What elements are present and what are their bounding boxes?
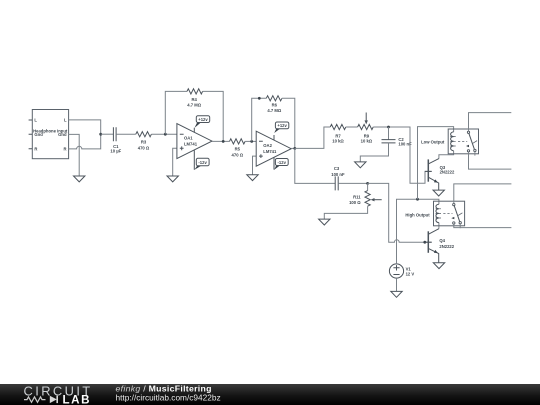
ground Q4 emitter: [433, 263, 444, 269]
svg-text:Headphone Input: Headphone Input: [33, 128, 68, 133]
svg-text:100 nF: 100 nF: [398, 142, 412, 147]
svg-text:L: L: [34, 118, 37, 123]
svg-text:100 nF: 100 nF: [331, 172, 345, 177]
svg-text:V1: V1: [406, 266, 412, 271]
svg-text:LAB: LAB: [63, 393, 92, 405]
wire OA2 output up to R7: [295, 127, 330, 148]
svg-text:R3: R3: [141, 139, 147, 144]
svg-text:R11: R11: [353, 195, 361, 200]
wire low relay throw out: [469, 152, 512, 169]
resistor R5: [230, 139, 246, 158]
capacitor C1: [110, 127, 121, 153]
svg-text:R4: R4: [192, 97, 198, 102]
power flag +12v OA1: [195, 116, 210, 128]
svg-text:C3: C3: [334, 166, 340, 171]
headphone input jack J1: [29, 110, 69, 159]
wire high relay common up: [454, 184, 512, 204]
svg-text:100 Ω: 100 Ω: [349, 200, 361, 205]
op-amp OA2 LM741: [256, 131, 291, 169]
wire R6 to OA2 output: [282, 98, 295, 148]
wire feedback left leg to R4: [165, 91, 187, 134]
svg-text:R9: R9: [364, 133, 370, 138]
wire OA1 + input to ground: [173, 148, 177, 176]
node supply rail junction: [416, 198, 419, 201]
node OA2 input junction: [250, 140, 253, 143]
wire R5 to OA2 inverting input: [245, 140, 256, 142]
svg-text:R7: R7: [335, 133, 341, 138]
voltage source V1 12V: [389, 264, 414, 278]
wire OA2 output: [291, 147, 295, 149]
svg-text:2N2222: 2N2222: [439, 244, 454, 249]
node C2 junction: [387, 126, 390, 129]
wire node H down to R11: [367, 183, 369, 190]
resistor R4: [187, 89, 203, 108]
wire J1 Gnd out: [69, 134, 80, 176]
wire C1 to R3: [116, 133, 136, 135]
svg-text:4.7 MΩ: 4.7 MΩ: [187, 102, 201, 107]
svg-text:10 kΩ: 10 kΩ: [361, 138, 373, 143]
resistor R6: [266, 96, 282, 113]
wire OA2 output down to C3: [295, 148, 335, 183]
node Q4 base dot: [423, 241, 426, 244]
power flag -12v OA2: [274, 159, 288, 170]
svg-text:LM741: LM741: [184, 141, 198, 146]
footer bar: [0, 384, 540, 405]
svg-text:High Output: High Output: [405, 212, 430, 217]
wire C3 to node H: [338, 182, 367, 184]
svg-text:470 Ω: 470 Ω: [232, 153, 244, 158]
wire OA2 + input to ground: [253, 156, 257, 175]
wire supply to low relay coil: [418, 127, 454, 200]
wire node to C1: [101, 133, 114, 135]
wire low relay common up: [469, 113, 512, 132]
transistor Q4 2N2222: [425, 229, 455, 263]
svg-text:R: R: [34, 147, 37, 152]
transistor Q3 2N2222: [425, 159, 455, 190]
resistor R7: [330, 124, 346, 143]
svg-text:-12v: -12v: [278, 160, 287, 165]
wire high relay nc stub: [459, 224, 461, 228]
svg-text:R5: R5: [235, 147, 241, 152]
power flag +12v OA2: [274, 122, 289, 133]
wire V1 negative to ground: [396, 278, 398, 291]
ground OA2 non-inverting: [247, 175, 258, 181]
svg-text:+12v: +12v: [277, 123, 287, 128]
svg-text:LM741: LM741: [263, 149, 277, 154]
svg-text:470 Ω: 470 Ω: [138, 146, 150, 151]
resistor R3: [136, 132, 152, 151]
wire R11 to ground: [324, 206, 367, 219]
wire feedback left leg to R6: [252, 98, 267, 141]
svg-text:L: L: [64, 118, 67, 123]
capacitor C2: [382, 137, 413, 147]
svg-text:-12v: -12v: [198, 160, 207, 165]
wire J1 R out with hop: [69, 134, 101, 149]
svg-text:2N2222: 2N2222: [440, 170, 455, 175]
node OA1 output junction: [222, 140, 225, 143]
svg-text:+12v: +12v: [198, 117, 208, 122]
wire R3 to OA1 inverting input: [151, 133, 177, 135]
potentiometer R11: [349, 191, 382, 207]
wire junction down to C2: [388, 127, 390, 140]
wire C2 to ground: [360, 143, 388, 162]
ground C2: [355, 162, 366, 168]
wire supply to high relay coil done above; high relay coil bottom to Q4: [438, 223, 440, 229]
node input junction: [99, 133, 102, 136]
wire OA1 output: [212, 140, 230, 142]
potentiometer R9: [358, 113, 374, 144]
node R6 rail junction: [258, 97, 261, 100]
relay K2 high output: [405, 201, 464, 226]
svg-text:OA1: OA1: [184, 136, 193, 141]
svg-text:4.7 MΩ: 4.7 MΩ: [267, 108, 281, 113]
capacitor C3: [331, 166, 345, 191]
svg-text:10 kΩ: 10 kΩ: [332, 138, 344, 143]
node OA1 input junction: [164, 133, 167, 136]
ground OA1 non-inverting: [167, 176, 178, 182]
svg-text:10 µF: 10 µF: [110, 148, 121, 153]
ground Q3 emitter: [433, 190, 444, 196]
node H junction: [366, 182, 369, 185]
svg-text:R: R: [63, 147, 66, 152]
ground headphone gnd: [74, 176, 85, 182]
ground V1: [391, 291, 402, 297]
svg-text:Low Output: Low Output: [421, 140, 445, 145]
svg-text:http://circuitlab.com/c9422bz: http://circuitlab.com/c9422bz: [116, 392, 221, 402]
wire V1 positive supply rail: [397, 199, 439, 264]
svg-text:R6: R6: [272, 103, 278, 108]
wire R4 to OA1 output: [203, 91, 224, 141]
op-amp OA1 LM741: [177, 124, 212, 170]
wire node H to Q4 base with hop: [368, 183, 432, 242]
wire R7 to R9: [346, 126, 358, 128]
svg-text:Q4: Q4: [439, 238, 445, 243]
wire R9 to Q3 base: [373, 127, 432, 183]
wire low relay coil to Q3 collector: [439, 151, 454, 159]
power flag -12v OA1: [195, 158, 210, 170]
wire high relay throw out: [454, 224, 512, 227]
wire low relay nc stub: [474, 152, 476, 156]
svg-text:OA2: OA2: [263, 143, 272, 148]
logo diode symbol: [50, 396, 57, 403]
ground R11: [319, 219, 330, 225]
node OA2 output junction: [293, 147, 296, 150]
relay K1 low output: [421, 129, 478, 154]
svg-text:12 V: 12 V: [406, 272, 415, 277]
wire J1 L out: [69, 120, 101, 134]
logo resistor zigzag: [24, 397, 46, 402]
